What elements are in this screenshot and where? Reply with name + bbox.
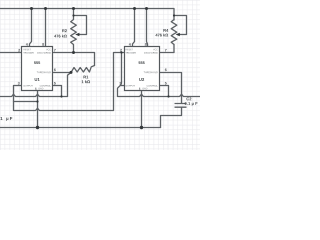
label R4 designator xyxy=(163,29,168,32)
junction dot VCC rail / U1 pin8 drop xyxy=(44,7,47,10)
pin name CONTROL U1 xyxy=(40,85,51,87)
wire U1 pin6 threshold xyxy=(53,72,72,74)
pin number 3 U1 OUTPUT xyxy=(18,82,20,85)
wire bottom gnd rail xyxy=(0,127,161,129)
pin number 2 U1 TRIGGER xyxy=(18,49,20,52)
value label C1 1 uF (cut off at left edge) xyxy=(0,117,12,121)
wire rail to U1 pin8 xyxy=(45,9,47,48)
value label C2 0.1 uF xyxy=(185,102,198,106)
background grid xyxy=(0,0,200,150)
pin name RESET U1 xyxy=(23,49,30,51)
wire U1 pin2 trigger to left edge xyxy=(0,52,22,54)
junction dot VCC rail / R2 top xyxy=(72,7,75,10)
capacitor C2 plates xyxy=(175,104,187,108)
label R1 designator xyxy=(84,76,89,79)
pin name GND U2 xyxy=(142,88,147,90)
pin name GND U1 xyxy=(38,88,43,90)
wire R2 wiper loop xyxy=(74,16,87,35)
wire R4 wiper loop xyxy=(174,16,187,35)
555 timer U2 box xyxy=(125,47,160,91)
potentiometer R4 wiper arrow xyxy=(176,33,180,37)
wire U1 gnd down xyxy=(37,91,39,128)
pin number 1 U2 GND xyxy=(139,88,141,91)
pin name CONTROL U2 xyxy=(147,85,158,87)
wire C1 top line with hops (node A) xyxy=(0,73,71,97)
wire rail to U2 pin4 xyxy=(133,9,135,48)
chip type label 555 U2 xyxy=(139,61,145,64)
resistor R4 (trimmer) zigzag xyxy=(171,20,177,45)
pin number 3 U2 OUTPUT xyxy=(119,82,121,85)
junction dot node A: U1 pin6 / R1 left / C1 line xyxy=(70,71,73,74)
value label R4 476 kOhm xyxy=(155,34,168,37)
pin number 7 U2 DISCHARGE xyxy=(165,49,167,52)
555 timer U1 box xyxy=(22,47,53,91)
pin name TRIGGER U1 xyxy=(23,52,33,54)
pin name THRESHOLD U1 xyxy=(37,71,51,73)
wire U2 pin7 discharge to R4 bottom xyxy=(160,45,175,53)
label C2 designator xyxy=(186,97,191,100)
pin name OUTPUT U2 xyxy=(126,85,135,87)
wire U1 pin3 output route to U2 pin2 xyxy=(14,53,125,111)
value label R1 1 kOhm xyxy=(82,80,90,83)
wire U2 pin2-pin3 tie xyxy=(121,53,125,86)
junction dot R2 bottom / U1 pin7 wire xyxy=(72,51,75,54)
wire top VCC rail xyxy=(0,9,174,21)
pin number 5 U2 CONTROL xyxy=(165,82,167,85)
pin name DISCHARGE U2 xyxy=(144,52,157,54)
pin name THRESHOLD U2 xyxy=(144,71,158,73)
pin name OUTPUT U1 xyxy=(23,85,32,87)
pin number 6 U2 THRESHOLD xyxy=(165,69,167,72)
junction dot VCC rail / U2 pin4 drop xyxy=(133,7,136,10)
junction dot U1 pin5 / C1 line xyxy=(60,95,62,97)
junction dot ground rail / U2 pin1 xyxy=(140,126,143,129)
junction dot VCC rail / U2 pin8 drop xyxy=(145,7,148,10)
pin number 7 U1 DISCHARGE xyxy=(54,49,56,52)
pin number 4 U2 RESET xyxy=(129,43,131,46)
pin number 8 U1 VCC xyxy=(42,43,44,46)
pin number 5 U1 CONTROL xyxy=(54,82,56,85)
junction dot U2 pin5 / output line xyxy=(167,95,169,97)
pin name RESET U2 xyxy=(126,49,133,51)
value label R2 476 kOhm xyxy=(54,35,67,38)
wire U2 pin3 branch to output line xyxy=(118,86,201,97)
resistor R2 (trimmer) zigzag xyxy=(71,9,77,53)
chip designator label U2 xyxy=(139,78,144,81)
wire U1 pin5 control down xyxy=(53,86,62,97)
pin number 1 U1 GND xyxy=(35,88,37,91)
wire rail to U2 pin8 xyxy=(147,9,148,48)
pin name VCC U2 xyxy=(153,49,158,51)
junction dot VCC rail / U1 pin4 drop xyxy=(30,7,33,10)
wire U2 gnd down xyxy=(141,91,143,128)
pin number 4 U1 RESET xyxy=(26,43,28,46)
label R2 designator xyxy=(62,29,67,32)
pin number 8 U2 VCC xyxy=(145,43,147,46)
chip designator label U1 xyxy=(35,78,40,81)
wire U1 pin7 discharge to R1 right end xyxy=(53,53,95,66)
pin name DISCHARGE U1 xyxy=(37,52,50,54)
pin name VCC U1 xyxy=(46,49,51,51)
junction dot ground rail / U1 pin1 xyxy=(36,126,39,129)
junction dot R4 wiper loop / R4 top lead xyxy=(173,14,175,16)
wire U2 pin5 control down xyxy=(160,86,169,97)
chip type label 555 U1 xyxy=(34,61,40,64)
wire U2 pin6 threshold to C2 top xyxy=(160,73,182,104)
resistor R1 zigzag xyxy=(71,66,95,73)
wire U1 output branch xyxy=(14,101,38,103)
wire rail to U1 pin4 xyxy=(30,9,32,48)
pin name TRIGGER U2 xyxy=(125,52,135,54)
junction dot R2 wiper loop / R2 top lead xyxy=(72,14,74,16)
wire C2 bottom to gnd rail xyxy=(161,108,182,128)
pin number 6 U1 THRESHOLD xyxy=(54,69,56,72)
junction dot U1 output branch / gnd wire xyxy=(36,100,38,102)
pin number 2 U2 TRIGGER xyxy=(120,49,122,52)
potentiometer R2 wiper arrow xyxy=(75,33,79,37)
junction dot U2 pin2 wire / pin3 tie xyxy=(120,51,122,53)
